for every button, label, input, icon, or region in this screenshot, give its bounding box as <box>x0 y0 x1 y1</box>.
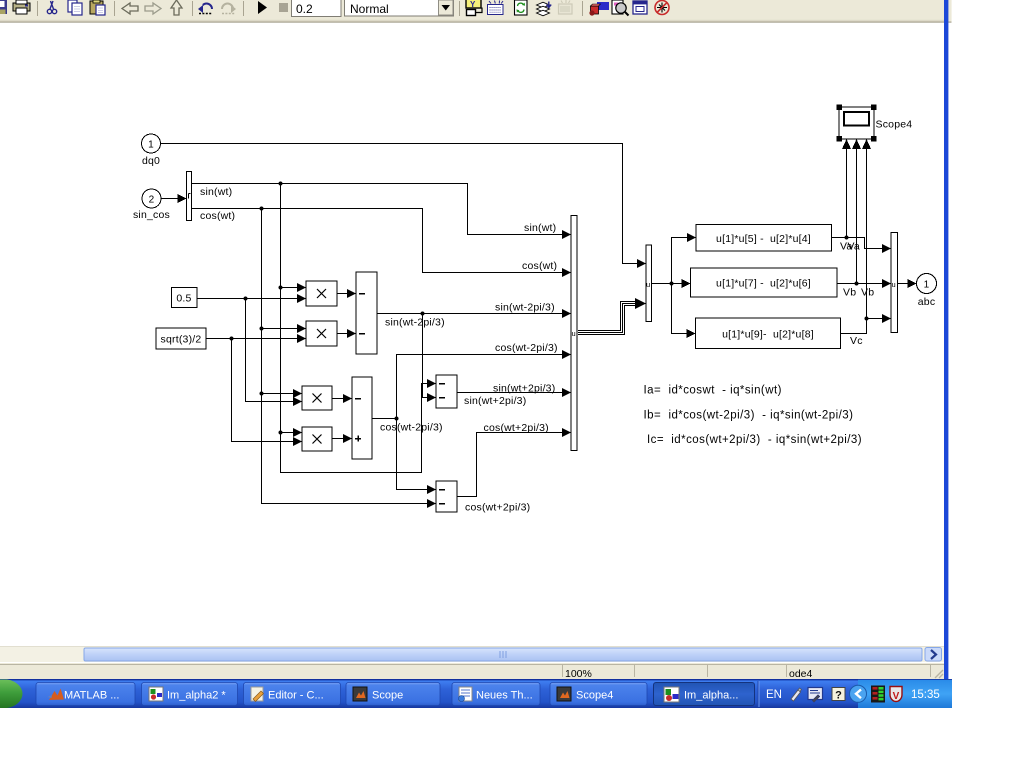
svg-text:dq0: dq0 <box>142 155 160 167</box>
taskbar button Scope <box>346 683 440 706</box>
stop button (disabled) <box>279 3 288 12</box>
toolbar separators <box>38 1 583 16</box>
svg-text:Ia= id*coswt - iq*sin(wt): Ia= id*coswt - iq*sin(wt) <box>644 385 782 397</box>
sum3 sin(wt+2pi/3) <box>436 375 526 408</box>
svg-text:sqrt(3)/2: sqrt(3)/2 <box>161 334 202 346</box>
wire sqrt(3)/2 to product2 input2 <box>206 338 299 340</box>
svg-text:sin_cos: sin_cos <box>133 209 170 221</box>
wire product3 to sum2 input1 <box>332 398 345 400</box>
svg-text:?: ? <box>835 690 842 702</box>
wire product4 to sum2 input2 <box>332 438 345 440</box>
taskbar button Im_alpha2 <box>142 683 238 706</box>
svg-text:sin(wt-2pi/3): sin(wt-2pi/3) <box>385 317 445 329</box>
svg-text:u[1]*u[9]- u[2]*u[8]: u[1]*u[9]- u[2]*u[8] <box>722 329 814 341</box>
svg-text:Editor - C...: Editor - C... <box>268 690 324 702</box>
print icon <box>13 0 30 14</box>
svg-text:Normal: Normal <box>350 2 389 16</box>
undo icon <box>198 4 212 14</box>
wire Fcn1 to mux3 input1 <box>832 238 885 249</box>
redo icon (disabled) <box>222 4 236 14</box>
window right border blue <box>944 0 948 679</box>
toolbar strip <box>0 0 952 23</box>
wire dq0 to mux2 input1 <box>161 144 640 264</box>
svg-text:Ic= id*cos(wt+2pi/3) - iq*si: Ic= id*cos(wt+2pi/3) - iq*sin(wt+2pi/3) <box>647 434 862 446</box>
wire constant 0.5 to product1 input2 <box>197 298 299 300</box>
wire scope tap2 <box>856 149 858 284</box>
svg-text:Va: Va <box>848 241 860 253</box>
disabled icon <box>559 0 573 14</box>
svg-text:cos(wt+2pi/3): cos(wt+2pi/3) <box>465 502 530 514</box>
product P1 <box>306 281 337 306</box>
cut icon (scissors) <box>47 1 56 14</box>
play button <box>258 1 267 14</box>
tray hide icons button <box>850 685 867 702</box>
Fcn block Vc <box>696 318 841 349</box>
taskbar button Scope4 <box>550 683 647 706</box>
wire sum3 sin(wt+2pi/3) to mux1 input5 <box>457 392 563 394</box>
model browser icon <box>612 0 629 16</box>
svg-text:V: V <box>893 691 900 702</box>
svg-text:sin(wt): sin(wt) <box>524 222 556 234</box>
tray lighter panel <box>858 680 952 708</box>
wire product1 to sum1 input1 <box>337 293 349 295</box>
scrollbar thumb <box>84 648 922 661</box>
tray divider <box>758 681 759 707</box>
Fcn block Va <box>696 225 832 252</box>
wide wire mux1 to mux2 input2 <box>578 304 637 333</box>
svg-text:cos(wt-2pi/3): cos(wt-2pi/3) <box>495 342 558 354</box>
wire mux3 to outport <box>898 283 911 285</box>
product P2 <box>306 321 337 346</box>
wire junction to Fcn2 <box>672 283 684 285</box>
svg-text:sin(wt): sin(wt) <box>200 186 232 198</box>
wire cos branch vertical to sum4 input2 <box>262 209 430 504</box>
up arrow icon <box>171 0 182 15</box>
taskbar <box>0 679 952 708</box>
wire scope tap1 <box>846 149 848 238</box>
wire sum4 cos(wt+2pi/3) to mux1 input6 <box>457 433 563 497</box>
svg-text:u: u <box>572 329 576 338</box>
wire inport2 to demux <box>161 198 180 200</box>
svg-text:Vb: Vb <box>843 287 856 299</box>
wire sum1 sin(wt-2pi/3) to mux1 input3 <box>377 313 563 315</box>
wire junction to Fcn1 <box>672 238 690 284</box>
wire sin branch to product4 input1 <box>281 432 296 434</box>
svg-text:Neues Th...: Neues Th... <box>476 690 533 702</box>
svg-text:u: u <box>892 280 896 289</box>
taskbar button Neues Th <box>452 683 540 706</box>
product P3 <box>302 386 332 410</box>
library browser icon <box>589 2 609 16</box>
taskbar button Editor <box>244 683 341 706</box>
svg-text:sin(wt-2pi/3): sin(wt-2pi/3) <box>495 302 555 314</box>
svg-text:u: u <box>646 280 650 289</box>
svg-text:u[1]*u[5] - u[2]*u[4]: u[1]*u[5] - u[2]*u[4] <box>716 233 811 245</box>
svg-text:cos(wt+2pi/3): cos(wt+2pi/3) <box>484 422 549 434</box>
Fcn block Vb <box>691 268 838 297</box>
svg-text:1: 1 <box>924 280 930 291</box>
constant 0.5 <box>172 288 198 308</box>
svg-text:0.5: 0.5 <box>176 293 191 305</box>
wire cos(wt) demux to mux1 input2 <box>192 209 564 273</box>
svg-text:EN: EN <box>766 689 782 701</box>
svg-text:ode4: ode4 <box>789 668 813 680</box>
wire sin branch vertical to sum3 input1 <box>281 184 430 473</box>
svg-text:cos(wt): cos(wt) <box>200 210 235 222</box>
scope Scope4 selected <box>837 105 913 142</box>
junction dots <box>230 182 869 435</box>
mux1 <box>571 216 577 451</box>
wire sin branch to product1 input1 <box>281 287 300 289</box>
status bar <box>0 662 944 680</box>
wire 0.5 branch to product3 input2 <box>246 299 296 402</box>
wire product2 to sum1 input2 <box>337 333 349 335</box>
mux2 <box>646 245 652 322</box>
svg-text:Scope4: Scope4 <box>876 119 913 131</box>
sim time field 0.2 <box>292 0 342 17</box>
mode combobox Normal <box>345 0 454 16</box>
taskbar button MATLAB <box>36 683 135 706</box>
svg-text:Scope: Scope <box>372 690 403 702</box>
product P4 <box>302 427 332 451</box>
tray antivirus shield icon <box>890 687 902 703</box>
update diagram icon <box>515 0 528 15</box>
mux3 <box>891 233 898 333</box>
paste icon <box>90 0 105 15</box>
outport 1 abc <box>917 274 937 309</box>
sum1 sin(wt-2pi/3) <box>356 272 445 354</box>
wire Fcn3 to mux3 input3 <box>841 319 885 334</box>
forward arrow icon <box>145 3 161 14</box>
tray pen icon <box>791 688 802 701</box>
constant sqrt(3)/2 <box>156 328 206 349</box>
wire sqrt(3)/2 branch to product4 input2 <box>232 339 296 442</box>
arrowheads <box>178 139 917 508</box>
svg-text:Ib= id*cos(wt-2pi/3) - iq*si: Ib= id*cos(wt-2pi/3) - iq*sin(wt-2pi/3) <box>644 410 854 422</box>
wire mux2 out to junction <box>652 283 672 285</box>
wire sin(wt-2pi/3) branch to sum3 input2 <box>423 314 430 398</box>
svg-text:cos(wt-2pi/3): cos(wt-2pi/3) <box>380 422 443 434</box>
model explorer icon <box>633 1 647 14</box>
beige sliver right of blue border <box>948 0 951 22</box>
scrollbar right arrow button <box>925 648 942 662</box>
taskbar button Im_alpha active <box>654 683 755 706</box>
svg-text:MATLAB ...: MATLAB ... <box>64 690 119 702</box>
inport 1 dq0 <box>142 134 161 167</box>
svg-text:sin(wt+2pi/3): sin(wt+2pi/3) <box>493 383 555 395</box>
back arrow icon <box>122 3 138 14</box>
sum2 cos(wt-2pi/3) <box>352 377 443 459</box>
svg-text:Vc: Vc <box>850 335 863 347</box>
svg-text:100%: 100% <box>565 668 592 680</box>
resize grip <box>935 670 943 678</box>
svg-text:u[1]*u[7] - u[2]*u[6]: u[1]*u[7] - u[2]*u[6] <box>716 278 811 290</box>
inport 2 sin_cos <box>133 189 170 221</box>
copy icon <box>68 0 82 15</box>
wire sin(wt) demux to mux1 input1 <box>192 184 564 235</box>
svg-text:1: 1 <box>148 140 154 151</box>
build icon (stack) <box>537 2 552 16</box>
horizontal scrollbar row <box>0 646 944 662</box>
svg-text:cos(wt): cos(wt) <box>522 260 557 272</box>
svg-text:Im_alpha2 *: Im_alpha2 * <box>167 690 226 702</box>
svg-text:Vb: Vb <box>861 287 874 299</box>
start button fragment <box>0 680 22 709</box>
tray help icon <box>832 688 845 702</box>
svg-text:Im_alpha...: Im_alpha... <box>684 690 738 702</box>
tray LED meter icon <box>871 686 885 703</box>
wire junction to Fcn3 <box>672 284 689 334</box>
wire Fcn2 to mux3 input2 <box>837 283 884 285</box>
wire cos branch to product2 input1 <box>262 328 300 330</box>
wire scope tap3 <box>866 149 868 319</box>
svg-text:sin(wt+2pi/3): sin(wt+2pi/3) <box>464 395 526 407</box>
debug disabled icon <box>655 1 669 15</box>
demux <box>187 172 192 221</box>
svg-text:Scope4: Scope4 <box>576 690 613 702</box>
wire sum2 cos(wt-2pi/3) to mux1 input4 <box>372 355 563 419</box>
sum4 cos(wt+2pi/3) <box>436 481 530 514</box>
wire cos branch to product3 input1 <box>262 393 296 395</box>
wire cos(wt-2pi/3) branch to sum4 input1 <box>397 419 430 490</box>
library link icon <box>466 0 482 16</box>
svg-text:15:35: 15:35 <box>911 689 940 701</box>
tray language bar icon <box>808 688 823 703</box>
keyboard icon <box>488 1 504 15</box>
svg-text:2: 2 <box>149 195 155 206</box>
save icon (clipped floppy) <box>0 0 7 14</box>
svg-text:0.2: 0.2 <box>296 2 313 16</box>
svg-text:Y: Y <box>470 0 476 9</box>
svg-text:abc: abc <box>918 296 936 308</box>
